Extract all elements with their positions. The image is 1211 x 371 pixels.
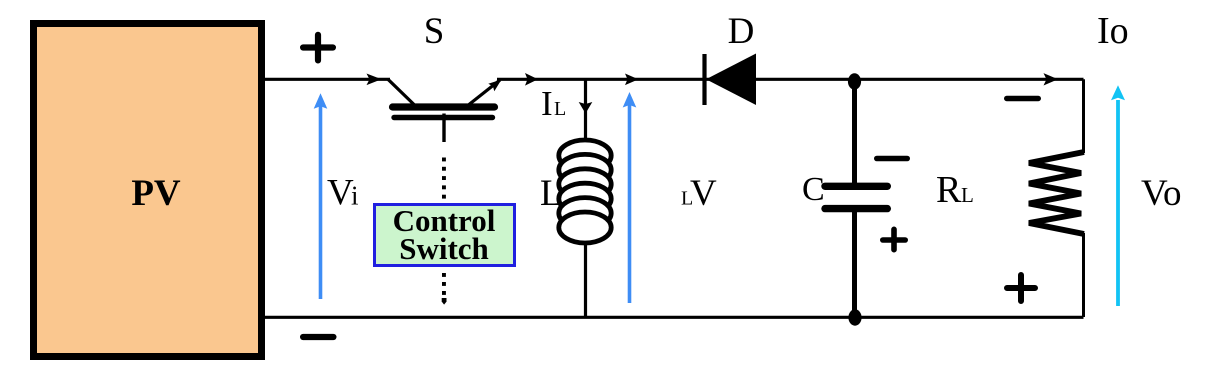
wire: top rail from switch to top-right corner	[497, 78, 1084, 81]
capacitor C: bottom lead	[852, 210, 857, 317]
IL current arrowhead (down)	[579, 102, 593, 114]
switch S: bottom bar	[394, 115, 493, 120]
svg-text:R: R	[936, 169, 962, 211]
VL arrow (blue, up)	[628, 104, 632, 303]
resistor RL: bottom lead	[1082, 233, 1085, 317]
switch S: incoming arrowhead	[367, 74, 382, 86]
resistor RL: zigzag	[1029, 152, 1084, 234]
arrowhead before diode	[625, 74, 639, 86]
minus sign (load top)	[1007, 96, 1039, 101]
Control Switch box	[375, 205, 515, 266]
svg-text:C: C	[802, 171, 825, 208]
switch S: top bar	[393, 103, 495, 110]
svg-text:L: L	[540, 173, 563, 214]
svg-text:D: D	[728, 11, 755, 52]
plus sign (load bottom)	[1007, 275, 1035, 301]
inductor L: top lead	[584, 79, 587, 142]
inductor L: coil	[559, 140, 611, 171]
svg-text:i: i	[351, 181, 359, 211]
svg-text:V: V	[327, 173, 354, 214]
Vi arrow (blue, up)	[319, 105, 323, 299]
switch S: left diagonal	[388, 79, 414, 104]
inductor L: bottom lead	[584, 241, 587, 317]
svg-text:V: V	[690, 173, 717, 214]
wire: bottom rail	[263, 316, 1084, 319]
capacitor C: top lead	[852, 81, 857, 184]
switch S: gate stub	[442, 114, 445, 143]
switch S: right diagonal	[469, 80, 500, 105]
svg-text:L: L	[554, 98, 566, 120]
svg-text:Vo: Vo	[1141, 173, 1181, 214]
resistor RL: top lead	[1082, 79, 1085, 153]
node: bottom junction dot at capacitor	[848, 309, 861, 325]
minus sign above capacitor	[877, 156, 907, 162]
svg-text:S: S	[424, 11, 445, 52]
dotted control line (upper)	[442, 158, 446, 162]
wire: top rail from PV to switch	[263, 78, 390, 81]
svg-text:I: I	[541, 84, 553, 123]
arrowhead after switch	[525, 73, 538, 86]
switch S: diagonal tip arrowhead	[488, 80, 501, 92]
plus sign below capacitor	[883, 229, 905, 249]
Vo arrow (cyan, up)	[1116, 100, 1120, 306]
svg-text:Io: Io	[1097, 10, 1129, 52]
arrowhead on top rail before load	[1044, 73, 1059, 85]
svg-text:L: L	[961, 183, 974, 207]
svg-text:PV: PV	[131, 173, 181, 214]
diode D: triangle	[706, 54, 756, 106]
capacitor C: top plate	[825, 183, 887, 190]
svg-text:Switch: Switch	[399, 231, 489, 266]
node: top junction dot at capacitor	[848, 73, 861, 89]
diode D: cathode bar	[702, 54, 706, 105]
minus sign (PV bottom terminal)	[303, 334, 333, 340]
capacitor C: bottom plate	[825, 205, 887, 212]
PV panel box	[34, 24, 262, 357]
dotted control line (lower)	[442, 273, 446, 277]
plus sign (PV top terminal)	[303, 35, 333, 61]
